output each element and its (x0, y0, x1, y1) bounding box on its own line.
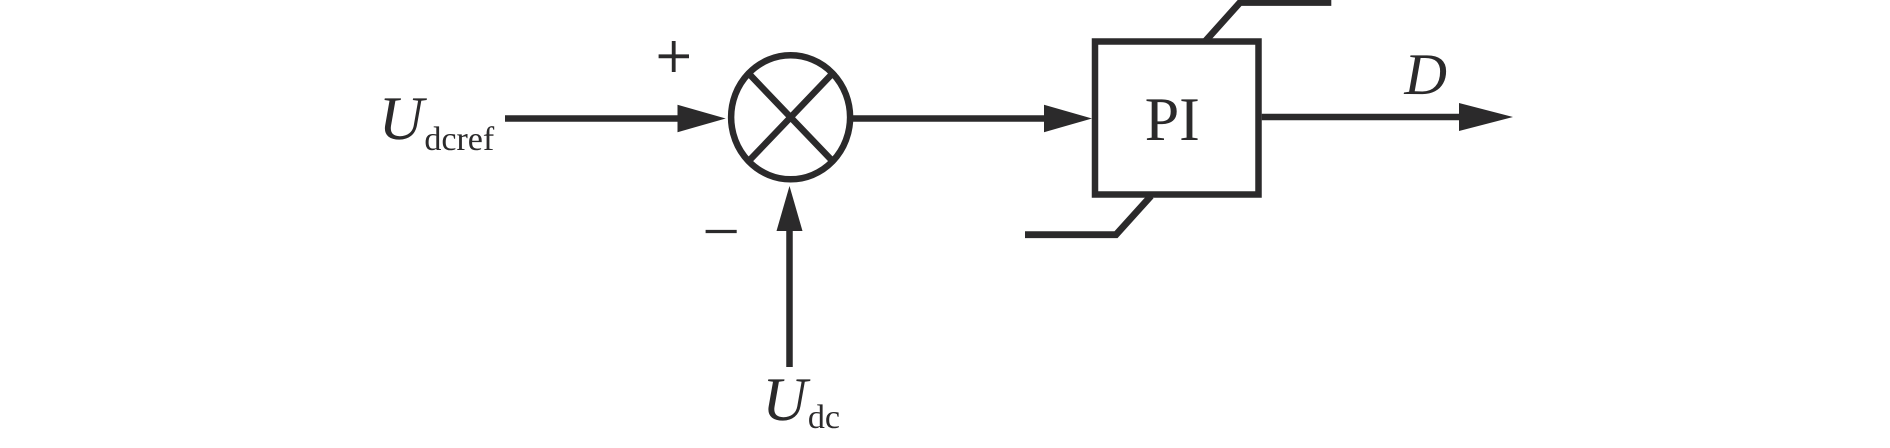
summing junction cross (747, 71, 835, 163)
arrowhead output (1459, 103, 1513, 131)
wire input Udcref to summing junction (505, 115, 679, 122)
PI controller block (1095, 42, 1259, 195)
arrowhead into PI block (1044, 105, 1092, 132)
arrowhead feedback up (777, 186, 803, 231)
wire summing junction to PI block (853, 115, 1047, 122)
node D output label (1404, 55, 1446, 94)
saturation limit mark lower-left (1025, 196, 1151, 235)
minus sign at summing junction (706, 230, 737, 233)
saturation limit mark upper-right (1205, 3, 1331, 42)
wire feedback Udc into summing junction (786, 229, 793, 367)
summing junction S1 (731, 55, 850, 179)
wire output of PI block (1262, 114, 1461, 121)
node Udc feedback label (768, 379, 839, 428)
plus sign at summing junction (659, 41, 689, 72)
arrowhead input (678, 105, 726, 132)
node Udcref input label (385, 98, 495, 150)
PI block label (1147, 99, 1198, 140)
